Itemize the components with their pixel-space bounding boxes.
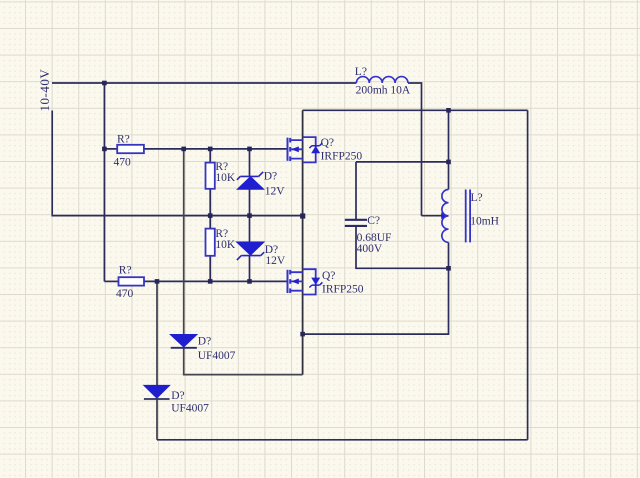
svg-text:0.68UF: 0.68UF (357, 232, 392, 244)
wire top rail (52, 82, 356, 84)
svg-text:Q?: Q? (322, 270, 335, 282)
wire cap top link (356, 161, 449, 163)
wire R2 left pin (104, 280, 118, 282)
tap arrowhead (441, 212, 448, 219)
resistor R3 10K (206, 163, 215, 189)
svg-text:400V: 400V (357, 243, 383, 255)
wire L2 bottom pin (448, 242, 450, 268)
svg-text:C?: C? (367, 215, 380, 227)
mosfet Q1 IRFP250 (288, 137, 363, 162)
capacitor C1 0.68UF 400V (345, 215, 392, 255)
wire D3 branch (184, 149, 303, 375)
svg-text:UF4007: UF4007 (171, 403, 209, 415)
diode D4 UF4007 (144, 385, 209, 414)
wire gate wire 1 (104, 148, 287, 150)
wire cap top pin (355, 162, 357, 220)
inductor L2 10mH (442, 190, 499, 243)
wire bottom rail (157, 439, 528, 441)
wire zener chain (249, 149, 251, 282)
wire Q2 source to L2 bottom (303, 268, 449, 334)
svg-text:10mH: 10mH (470, 216, 499, 228)
diode D3 UF4007 (170, 335, 235, 363)
wire L2 top pin (448, 110, 450, 189)
wire 10K chain (209, 149, 211, 282)
resistor R2 470 (119, 277, 145, 285)
wire D4 branch (156, 281, 158, 439)
svg-text:D?: D? (171, 390, 184, 402)
inductor L1 200mh 10A (355, 66, 411, 96)
wire middle rail (51, 215, 302, 217)
zener D1 12V (237, 171, 285, 198)
svg-text:UF4007: UF4007 (198, 350, 236, 362)
svg-text:D?: D? (264, 171, 277, 183)
svg-text:L?: L? (471, 192, 483, 204)
wire feed line (103, 83, 105, 281)
wire drain rail (303, 109, 528, 111)
svg-text:12V: 12V (265, 185, 286, 197)
wire cap bottom pin (356, 226, 449, 268)
svg-text:IRFP250: IRFP250 (322, 284, 364, 296)
svg-text:470: 470 (114, 157, 132, 169)
svg-text:10K: 10K (215, 239, 236, 251)
svg-text:470: 470 (116, 288, 134, 300)
svg-text:IRFP250: IRFP250 (321, 150, 363, 162)
resistor R1 470 (117, 145, 144, 153)
svg-text:L?: L? (355, 66, 367, 78)
resistor R4 10K (206, 229, 215, 256)
svg-text:R?: R? (117, 134, 130, 146)
wire right rail (527, 110, 529, 440)
wire left rail (51, 111, 53, 215)
svg-text:Q?: Q? (321, 137, 334, 149)
wire L1 right lead (408, 83, 422, 216)
svg-text:200mh 10A: 200mh 10A (356, 84, 411, 96)
zener D2 12V (237, 242, 286, 267)
wire gate wire 2 (144, 280, 288, 282)
wire inductor tap (422, 215, 442, 217)
svg-text:10K: 10K (215, 172, 236, 184)
mosfet Q2 IRFP250 (288, 269, 364, 295)
svg-text:12V: 12V (265, 255, 286, 267)
svg-text:10-40V: 10-40V (37, 69, 52, 112)
svg-text:D?: D? (198, 336, 211, 348)
svg-text:R?: R? (119, 265, 132, 277)
wire mosfet chain vertical (302, 110, 304, 374)
